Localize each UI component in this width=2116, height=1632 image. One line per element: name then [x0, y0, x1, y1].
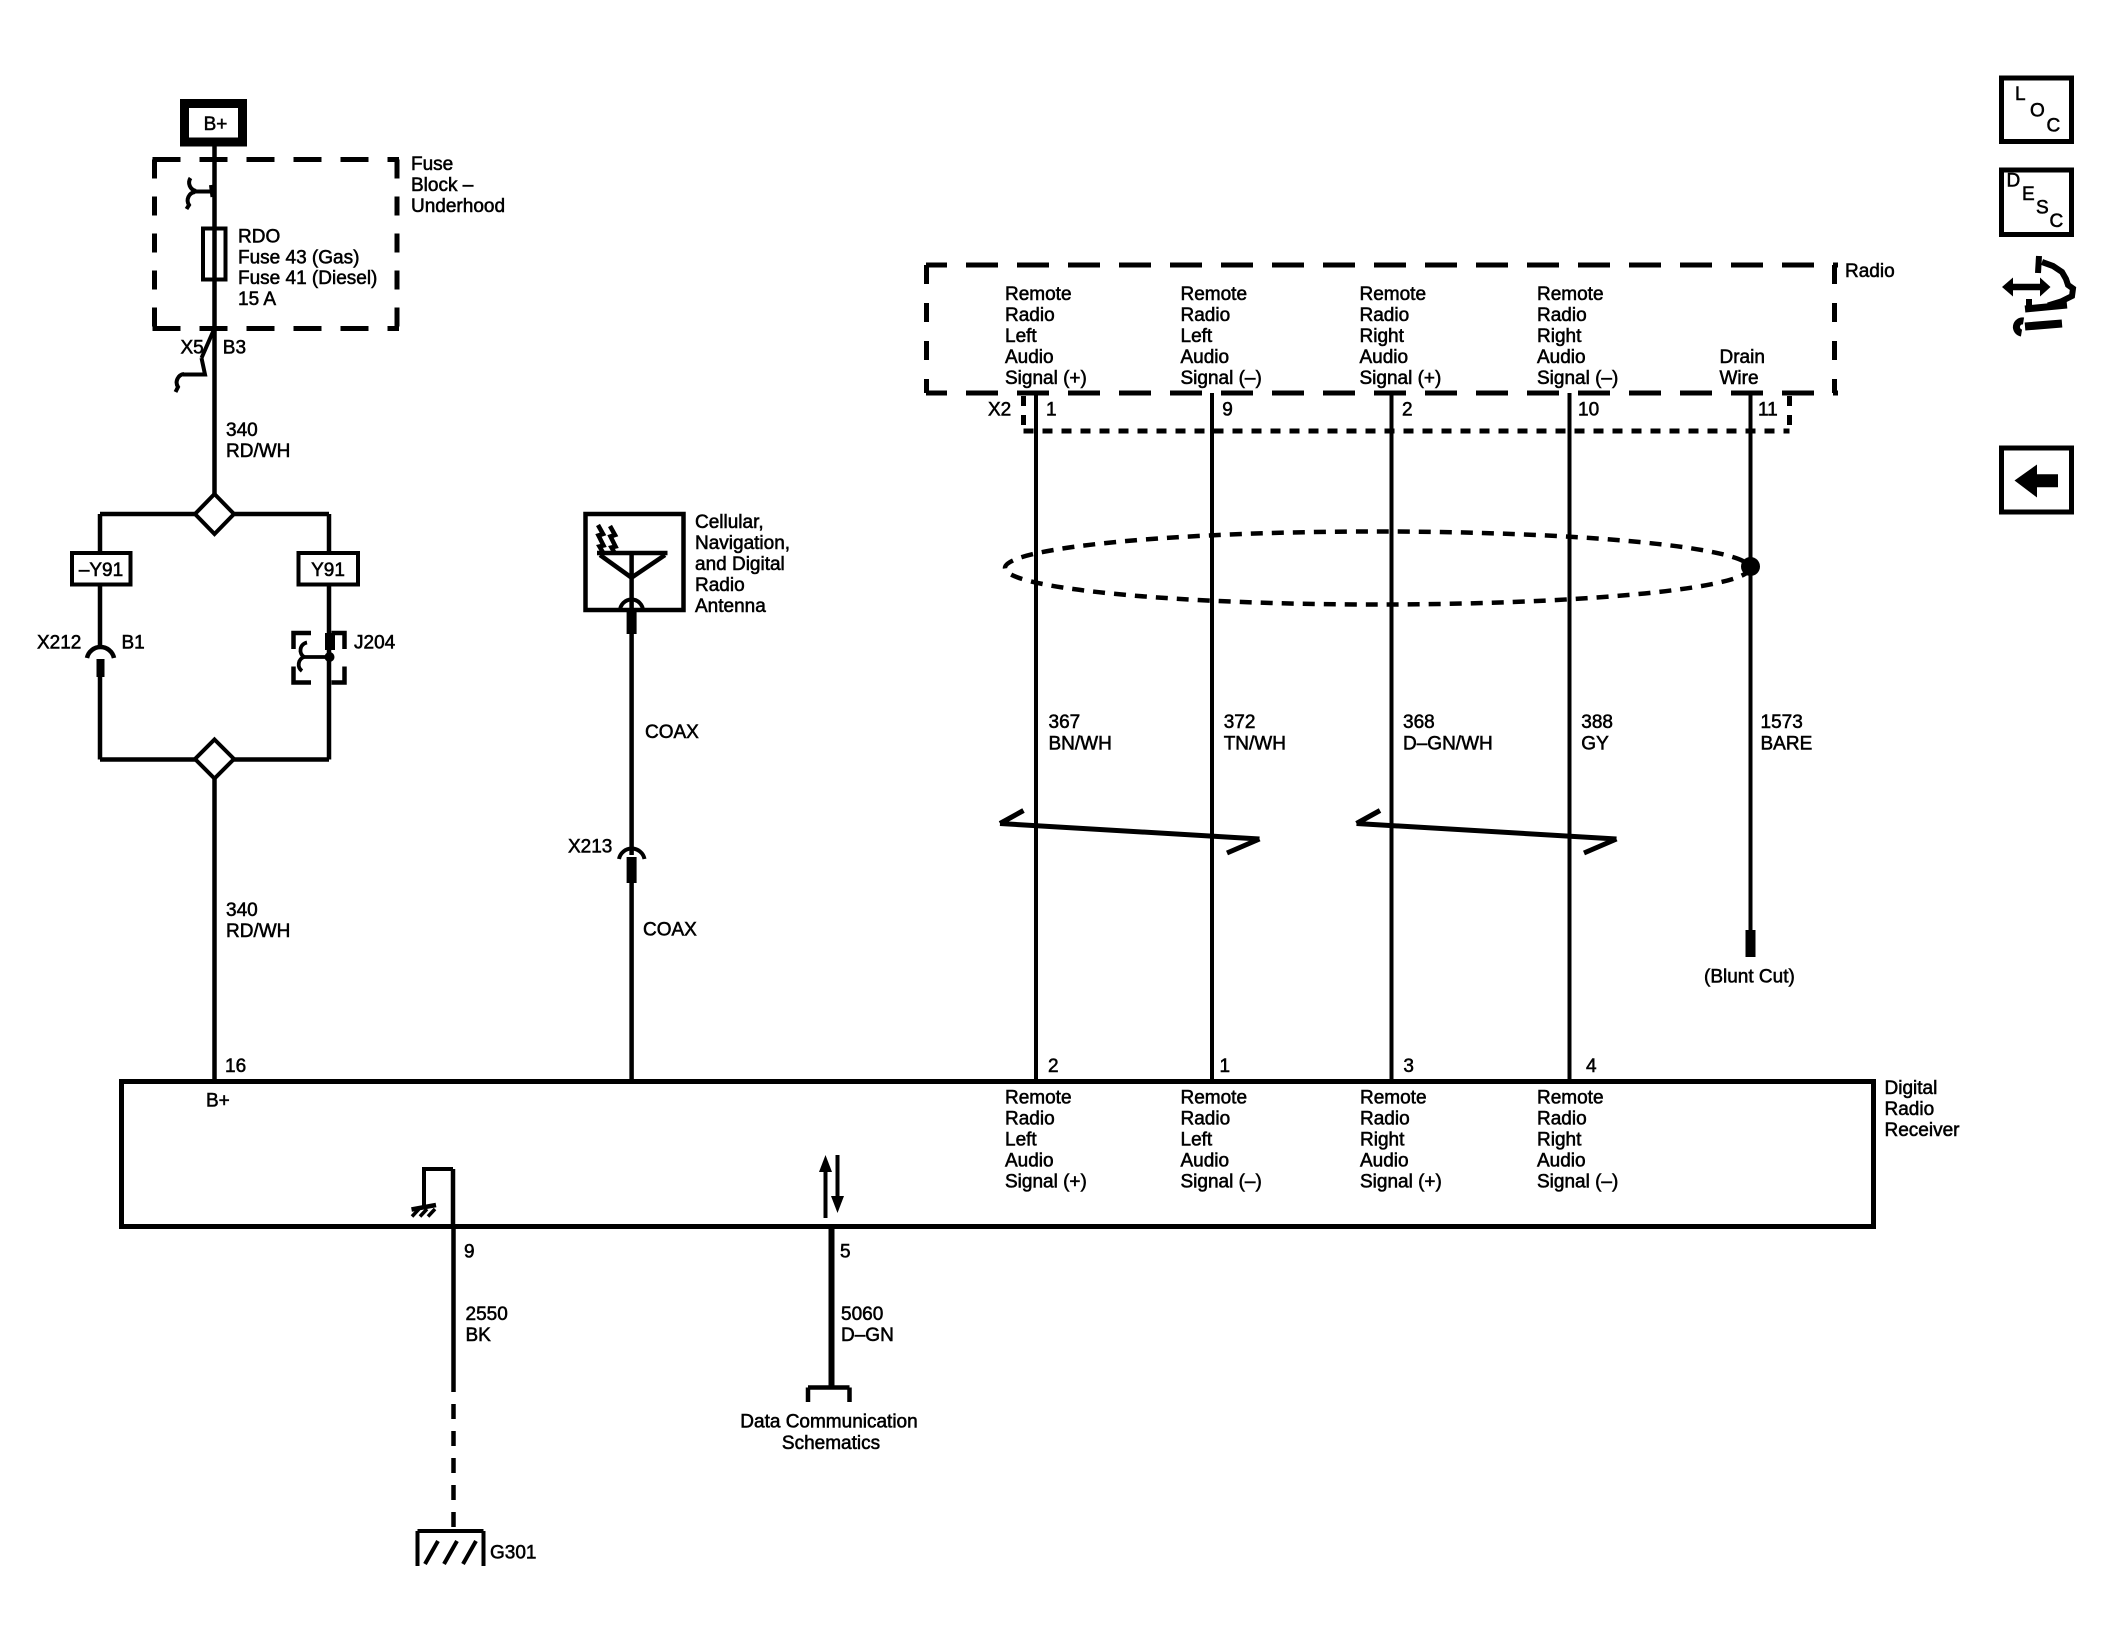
svg-text:Right: Right	[1537, 1130, 1582, 1151]
svg-text:Radio: Radio	[1845, 261, 1895, 282]
svg-text:Drain: Drain	[1720, 347, 1765, 368]
right branch wire through J204	[327, 585, 332, 760]
svg-text:Remote: Remote	[1181, 1088, 1248, 1109]
twisted pair symbol left pair	[1000, 811, 1260, 854]
connector J204 bracket	[294, 633, 396, 683]
svg-text:–Y91: –Y91	[79, 560, 123, 581]
svg-text:(Blunt Cut): (Blunt Cut)	[1704, 967, 1795, 988]
svg-text:Radio: Radio	[1005, 305, 1055, 326]
twisted pair symbol right pair	[1357, 811, 1617, 854]
left branch wire upper	[98, 514, 103, 553]
svg-text:Block –: Block –	[411, 175, 474, 196]
wire 1573 BARE drain	[1749, 393, 1753, 930]
svg-text:Audio: Audio	[1181, 1151, 1230, 1172]
receiver box label	[1885, 1078, 1961, 1141]
svg-text:Radio: Radio	[1181, 1109, 1231, 1130]
svg-text:BARE: BARE	[1761, 734, 1813, 755]
svg-text:Signal (+): Signal (+)	[1360, 1172, 1442, 1193]
svg-text:Remote: Remote	[1537, 1088, 1604, 1109]
svg-text:B+: B+	[206, 1091, 230, 1112]
radio pin label col4 Remote Radio Right Audio Signal (-)	[1537, 284, 1618, 389]
svg-text:1: 1	[1220, 1056, 1231, 1077]
svg-text:Fuse: Fuse	[411, 154, 453, 175]
svg-text:2: 2	[1048, 1056, 1059, 1077]
parallel branch top rail	[100, 512, 329, 517]
wire 2550 BK solid	[451, 1229, 456, 1377]
svg-text:B3: B3	[223, 338, 246, 359]
svg-text:5: 5	[840, 1242, 851, 1263]
svg-text:372: 372	[1224, 712, 1256, 733]
svg-text:RD/WH: RD/WH	[226, 441, 290, 462]
connector X212 B1 (arc + terminal)	[37, 633, 145, 678]
radio pin label col2 Remote Radio Left Audio Signal (-)	[1181, 284, 1262, 389]
receiver label col1	[1005, 1088, 1087, 1193]
svg-text:Audio: Audio	[1537, 347, 1586, 368]
svg-text:Radio: Radio	[1885, 1099, 1935, 1120]
receiver label col2	[1181, 1088, 1262, 1193]
svg-text:Right: Right	[1360, 326, 1405, 347]
wire B+ to fuse and down to splice S1	[212, 143, 217, 495]
svg-text:1573: 1573	[1761, 712, 1803, 733]
left branch wire lower	[98, 677, 103, 760]
coax wire upper	[629, 634, 634, 855]
left branch wire to connector	[98, 585, 103, 649]
wire 388 GY	[1568, 393, 1572, 1079]
radio pin label col3 Remote Radio Right Audio Signal (+)	[1360, 284, 1442, 389]
svg-text:COAX: COAX	[643, 920, 697, 941]
svg-text:Radio: Radio	[1181, 305, 1231, 326]
svg-text:Signal (–): Signal (–)	[1537, 368, 1618, 389]
svg-text:Remote: Remote	[1181, 284, 1248, 305]
svg-text:Radio: Radio	[1537, 305, 1587, 326]
LOC icon box	[2002, 78, 2072, 142]
svg-text:X212: X212	[37, 633, 81, 654]
svg-text:X2: X2	[988, 400, 1011, 421]
coax wire lower	[629, 883, 634, 1079]
connector terminal inside fuse block	[187, 178, 215, 209]
svg-text:D: D	[2007, 171, 2021, 192]
antenna terminal stub	[627, 610, 637, 634]
ground G301	[418, 1531, 537, 1566]
svg-text:Right: Right	[1360, 1130, 1405, 1151]
svg-text:RD/WH: RD/WH	[226, 921, 290, 942]
svg-text:16: 16	[225, 1056, 246, 1077]
wire splice to receiver pin 16	[212, 778, 217, 1079]
antenna box Cellular Navigation Digital Radio Antenna	[586, 512, 791, 617]
svg-text:340: 340	[226, 900, 258, 921]
svg-text:368: 368	[1403, 712, 1435, 733]
svg-text:and Digital: and Digital	[695, 554, 785, 575]
svg-text:2550: 2550	[466, 1304, 508, 1325]
component -Y91 box	[72, 553, 131, 585]
right branch wire upper	[327, 514, 332, 553]
svg-text:D–GN: D–GN	[841, 1325, 894, 1346]
svg-text:BK: BK	[466, 1325, 492, 1346]
serial data arrows inside receiver	[819, 1155, 844, 1218]
svg-text:Remote: Remote	[1005, 284, 1072, 305]
svg-text:1: 1	[1046, 400, 1057, 421]
svg-text:Cellular,: Cellular,	[695, 512, 764, 533]
antenna symbol	[597, 551, 668, 556]
svg-text:Signal (–): Signal (–)	[1181, 1172, 1262, 1193]
svg-text:9: 9	[464, 1242, 475, 1263]
svg-text:Left: Left	[1005, 326, 1037, 347]
svg-text:Radio: Radio	[695, 575, 745, 596]
svg-text:Signal (+): Signal (+)	[1005, 368, 1087, 389]
svg-text:Audio: Audio	[1360, 347, 1409, 368]
blunt cut terminal stub	[1746, 930, 1756, 957]
svg-text:B+: B+	[204, 114, 228, 135]
svg-text:X213: X213	[568, 837, 612, 858]
splice diamond top	[195, 494, 234, 534]
svg-text:Signal (+): Signal (+)	[1360, 368, 1442, 389]
shield ellipse dashed	[1005, 532, 1750, 605]
connector X2 dotted strip	[1024, 396, 1790, 434]
back arrow icon box	[2002, 448, 2072, 512]
ground symbol inside receiver	[412, 1167, 454, 1229]
schematic navigation icon (double arrow, outline, wrench)	[2002, 256, 2073, 333]
svg-text:Signal (–): Signal (–)	[1181, 368, 1262, 389]
svg-text:Radio: Radio	[1537, 1109, 1587, 1130]
svg-text:Fuse 43 (Gas): Fuse 43 (Gas)	[238, 247, 359, 268]
wire 368 D-GN/WH	[1390, 393, 1394, 1079]
svg-text:GY: GY	[1581, 734, 1609, 755]
fuse RDO	[203, 227, 377, 310]
svg-text:Y91: Y91	[311, 560, 345, 581]
digital radio receiver box	[122, 1082, 1874, 1227]
svg-text:D–GN/WH: D–GN/WH	[1403, 734, 1493, 755]
svg-text:11: 11	[1758, 400, 1778, 421]
svg-text:Right: Right	[1537, 326, 1582, 347]
connector X213 (arc + terminal)	[568, 837, 645, 884]
svg-text:RDO: RDO	[238, 227, 280, 248]
svg-text:4: 4	[1586, 1056, 1597, 1077]
svg-text:Left: Left	[1005, 1130, 1037, 1151]
wire 5060 D-GN	[829, 1229, 835, 1388]
off page connector to data schematics	[808, 1388, 850, 1403]
svg-text:Remote: Remote	[1537, 284, 1604, 305]
receiver label col3	[1360, 1088, 1442, 1193]
svg-text:COAX: COAX	[645, 722, 699, 743]
svg-text:Schematics: Schematics	[782, 1433, 880, 1454]
svg-text:3: 3	[1403, 1056, 1414, 1077]
component Y91 box	[299, 553, 359, 585]
svg-text:Audio: Audio	[1360, 1151, 1409, 1172]
svg-text:5060: 5060	[841, 1304, 883, 1325]
svg-text:BN/WH: BN/WH	[1049, 734, 1112, 755]
wire 372 TN/WH	[1210, 393, 1214, 1079]
svg-text:9: 9	[1222, 400, 1233, 421]
DESC icon box	[2002, 170, 2072, 235]
svg-text:Left: Left	[1181, 326, 1213, 347]
svg-text:C: C	[2050, 211, 2064, 232]
shield junction dot on drain wire	[1741, 557, 1760, 576]
receiver label col4	[1537, 1088, 1618, 1193]
svg-text:2: 2	[1402, 400, 1413, 421]
svg-text:J204: J204	[354, 633, 396, 654]
svg-text:E: E	[2022, 184, 2035, 205]
antenna rf waves	[598, 525, 604, 553]
connector X5 / B3 breakout	[176, 326, 247, 392]
svg-text:Fuse 41 (Diesel): Fuse 41 (Diesel)	[238, 268, 377, 289]
radio pin label Drain Wire	[1720, 347, 1765, 389]
svg-text:Antenna: Antenna	[695, 596, 766, 617]
svg-text:Wire: Wire	[1720, 368, 1759, 389]
svg-text:Radio: Radio	[1360, 1109, 1410, 1130]
svg-text:Radio: Radio	[1360, 305, 1410, 326]
svg-text:Navigation,: Navigation,	[695, 533, 790, 554]
fuse block dashed box	[153, 160, 400, 329]
svg-text:Signal (–): Signal (–)	[1537, 1172, 1618, 1193]
svg-text:Radio: Radio	[1005, 1109, 1055, 1130]
svg-text:Underhood: Underhood	[411, 196, 505, 217]
battery feed B+ box	[185, 104, 243, 143]
svg-text:Signal (+): Signal (+)	[1005, 1172, 1087, 1193]
svg-text:Remote: Remote	[1360, 1088, 1427, 1109]
wire 367 BN/WH	[1034, 393, 1038, 1079]
svg-text:Remote: Remote	[1360, 284, 1427, 305]
radio pin label col1 Remote Radio Left Audio Signal (+)	[1005, 284, 1087, 389]
svg-text:O: O	[2030, 101, 2045, 122]
svg-text:Receiver: Receiver	[1885, 1120, 1961, 1141]
svg-text:Audio: Audio	[1005, 347, 1054, 368]
svg-text:TN/WH: TN/WH	[1224, 734, 1286, 755]
svg-text:Audio: Audio	[1537, 1151, 1586, 1172]
svg-text:340: 340	[226, 420, 258, 441]
splice diamond bottom	[100, 757, 329, 762]
radio dashed box	[926, 265, 1838, 393]
svg-text:388: 388	[1581, 712, 1613, 733]
svg-text:Digital: Digital	[1885, 1078, 1938, 1099]
svg-text:S: S	[2036, 198, 2049, 219]
antenna internal connector arc	[620, 600, 643, 612]
svg-text:B1: B1	[122, 633, 145, 654]
svg-text:L: L	[2015, 84, 2026, 105]
svg-text:X5: X5	[181, 338, 204, 359]
svg-text:G301: G301	[490, 1543, 536, 1564]
svg-text:C: C	[2047, 116, 2061, 137]
svg-text:Remote: Remote	[1005, 1088, 1072, 1109]
svg-text:Left: Left	[1181, 1130, 1213, 1151]
wire 2550 BK dashed	[451, 1377, 456, 1531]
svg-text:10: 10	[1578, 400, 1599, 421]
svg-text:Audio: Audio	[1005, 1151, 1054, 1172]
svg-text:Audio: Audio	[1181, 347, 1230, 368]
svg-text:15 A: 15 A	[238, 289, 276, 310]
svg-text:367: 367	[1049, 712, 1081, 733]
svg-text:Data Communication: Data Communication	[740, 1412, 917, 1433]
